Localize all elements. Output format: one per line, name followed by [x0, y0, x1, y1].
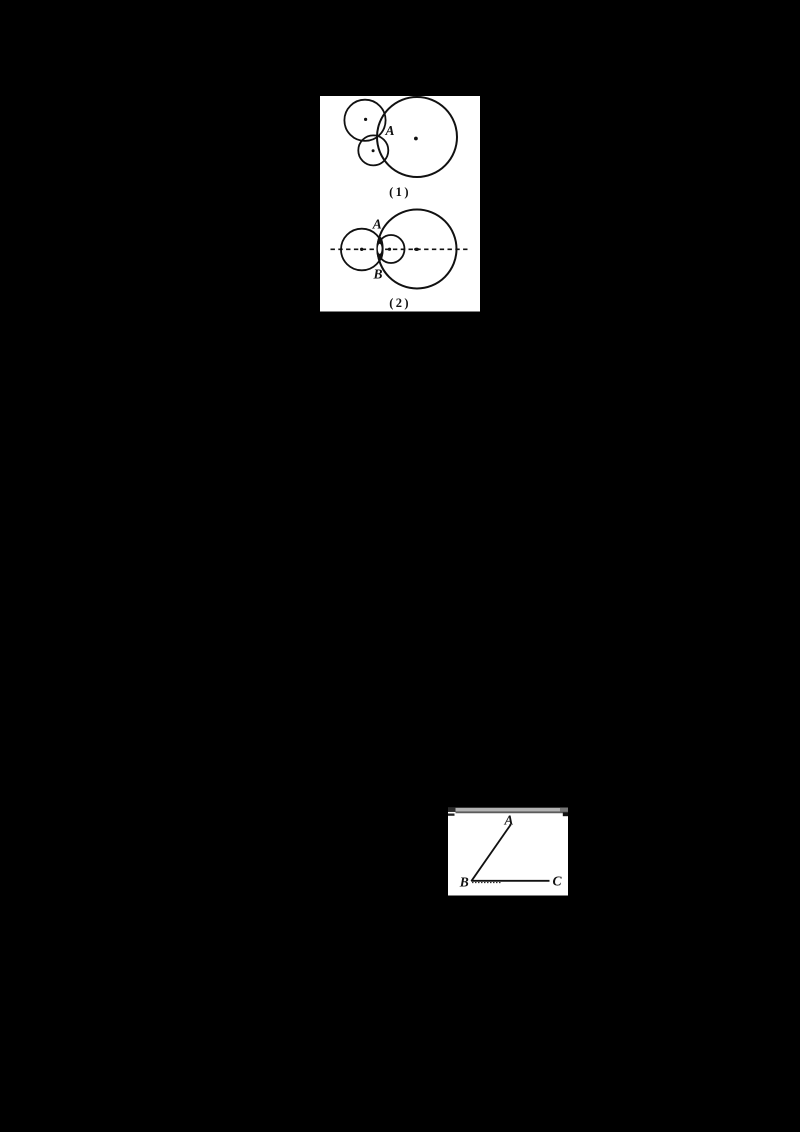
- svg-text:A: A: [384, 123, 394, 138]
- svg-text:(2): (2): [389, 296, 411, 310]
- svg-text:(1): (1): [389, 185, 411, 199]
- svg-text:B: B: [372, 267, 382, 282]
- svg-text:C: C: [552, 874, 562, 889]
- svg-text:B: B: [459, 875, 469, 890]
- svg-text:A: A: [503, 813, 513, 828]
- svg-text:A: A: [372, 217, 382, 232]
